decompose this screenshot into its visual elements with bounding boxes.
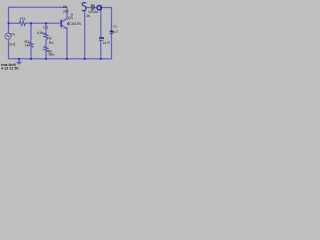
wire top right segment c + right edge drop (102, 8, 112, 32)
ground symbol (17, 59, 22, 64)
svg-text:4 13 21 50: 4 13 21 50 (1, 67, 19, 71)
resistor R4 vertical on x46 lower (44, 46, 48, 52)
source VS sine mark (7, 35, 10, 37)
source VS circle (5, 33, 11, 39)
resistor R3 vertical on x46 upper (44, 33, 48, 40)
svg-text:4u7: 4u7 (113, 30, 119, 34)
node x46 bottom (45, 58, 47, 60)
ammeter circle (97, 6, 101, 10)
svg-text:VS: VS (10, 31, 16, 36)
wire mid horizontal right (26, 22, 61, 24)
wire mid horizontal left (9, 22, 20, 24)
capacitor on x111.5 plates (110, 30, 113, 32)
wire right branch x100.8 upper (100, 8, 102, 38)
svg-text:C1: C1 (43, 24, 49, 29)
wire branch x46 lower (45, 52, 47, 59)
svg-text:4.6k: 4.6k (37, 31, 44, 35)
wire branch x46 middle (45, 40, 47, 46)
wire top right segment a (86, 7, 91, 9)
node x31 bottom (30, 58, 32, 60)
wire branch x46 upper (45, 23, 47, 33)
svg-text:1k: 1k (103, 41, 107, 45)
resistor R1 horizontal (19, 21, 26, 26)
svg-text:1k: 1k (48, 36, 52, 40)
wire left vertical upper (8, 23, 10, 33)
node x100.8 bottom (100, 58, 102, 60)
battery V1 plates (91, 5, 93, 11)
node ground tap (18, 58, 20, 60)
svg-text:CL: CL (113, 25, 117, 29)
svg-text:1Hz: 1Hz (9, 42, 16, 46)
svg-text:R1: R1 (20, 16, 26, 21)
wire branch x31 lower (30, 48, 32, 59)
labels (1, 3, 118, 70)
svg-text:1k: 1k (86, 14, 90, 18)
node x46 top (45, 22, 47, 24)
node x31 top (30, 22, 32, 24)
svg-text:68u: 68u (49, 53, 55, 57)
junction dots (8, 7, 102, 60)
node x100.8 top (100, 7, 102, 9)
wire top right segment b (95, 7, 97, 9)
wire right edge lower (111, 34, 113, 59)
capacitor on x100.8 plates (99, 37, 104, 39)
wire branch x31 upper (30, 23, 32, 42)
node left T (8, 22, 10, 24)
svg-text:V1: V1 (91, 3, 95, 7)
resistor R2 vertical on x31 (29, 42, 33, 48)
transistor Q1 (59, 19, 69, 29)
wire squiggle branch down (84, 11, 86, 59)
node emitter bottom (66, 58, 68, 60)
inductor/squiggle element top middle (82, 3, 86, 11)
svg-text:R4: R4 (49, 41, 54, 45)
svg-text:2k2: 2k2 (63, 9, 69, 13)
svg-text:BC547B: BC547B (67, 22, 82, 26)
background (0, 0, 120, 75)
svg-text:2k: 2k (63, 4, 67, 9)
wire right branch x100.8 lower (100, 42, 102, 59)
node squiggle bottom (84, 58, 86, 60)
wire emitter down (66, 29, 68, 59)
svg-text:Q1: Q1 (68, 15, 74, 20)
svg-text:1k: 1k (25, 44, 29, 48)
svg-text:m: m (107, 41, 110, 45)
wire top rail + collector drop (9, 7, 68, 23)
wire left vertical lower + bottom rail (9, 39, 112, 59)
